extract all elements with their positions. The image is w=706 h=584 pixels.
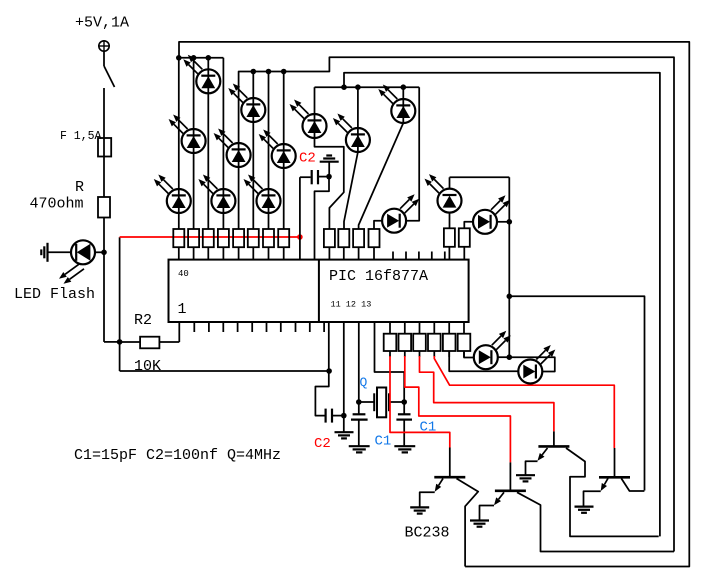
svg-text:C1=15pF C2=100nf Q=4MHz: C1=15pF C2=100nf Q=4MHz [74, 447, 281, 464]
svg-text:R: R [75, 179, 84, 196]
svg-text:40: 40 [178, 269, 189, 279]
svg-text:Q: Q [360, 375, 368, 390]
svg-text:+5V,1A: +5V,1A [75, 15, 129, 32]
svg-text:1: 1 [178, 301, 187, 318]
svg-text:11 12 13: 11 12 13 [331, 300, 372, 310]
svg-text:LED Flash: LED Flash [14, 286, 95, 303]
svg-text:C2: C2 [314, 436, 331, 452]
svg-text:R2: R2 [134, 312, 152, 329]
svg-text:C1: C1 [375, 434, 392, 450]
svg-text:BC238: BC238 [405, 525, 450, 542]
svg-text:C2: C2 [299, 151, 316, 167]
svg-text:PIC 16f877A: PIC 16f877A [329, 268, 428, 285]
svg-text:10K: 10K [134, 358, 161, 375]
svg-text:470ohm: 470ohm [30, 196, 84, 213]
svg-text:F 1,5A: F 1,5A [60, 130, 102, 143]
